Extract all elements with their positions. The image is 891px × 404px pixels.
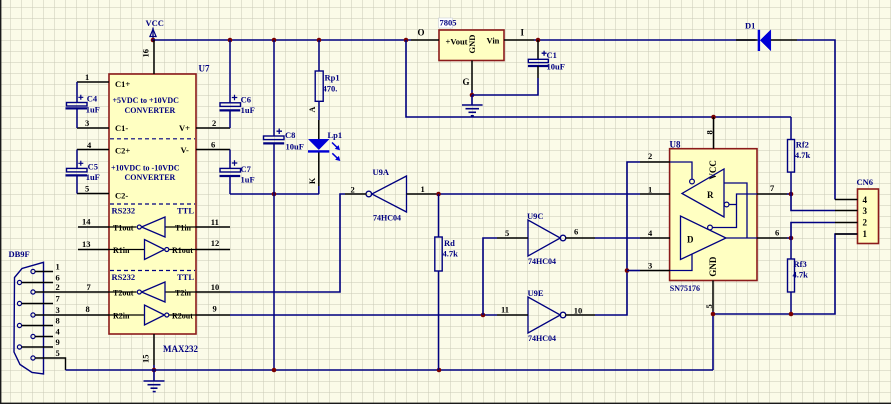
- pin 10 of U7: [196, 291, 230, 293]
- pin 8 of U7: [53, 314, 109, 316]
- svg-text:4.7k: 4.7k: [795, 150, 811, 160]
- wire VCC rail (U7 pin16 / C6 / C8 / Rp1 / 7805 Vout net): [152, 39, 411, 41]
- pin 4 of U8: [640, 237, 670, 239]
- junction on rail at C6: [228, 38, 233, 43]
- svg-text:GND: GND: [467, 35, 477, 54]
- capacitor C4 1uF: [66, 82, 100, 128]
- internal pin lines of U7 gates: [109, 227, 196, 315]
- svg-text:C1: C1: [547, 50, 557, 60]
- svg-text:6: 6: [775, 228, 779, 238]
- svg-text:MAX232: MAX232: [163, 344, 198, 354]
- connector CN6: [857, 177, 879, 244]
- svg-text:A: A: [308, 107, 317, 113]
- pin 7 of U8 (B): [757, 193, 787, 195]
- svg-text:C7: C7: [241, 164, 252, 174]
- pin 1 of CN6: [835, 233, 858, 235]
- svg-text:2: 2: [648, 151, 652, 161]
- svg-text:U9E: U9E: [528, 288, 544, 298]
- junction at U8 pin 3 branch: [625, 268, 630, 273]
- wire B net to CN6 pin 3: [791, 194, 835, 211]
- resistor Rf2 4.7k: [788, 117, 811, 194]
- RE bubble on R top edge: [690, 179, 695, 184]
- wire LED cathode down to C7 net: [318, 153, 320, 187]
- pin 3 of DB9F: [35, 314, 53, 316]
- IC U7 MAX232 body: [109, 64, 210, 355]
- screenshot left border: [0, 0, 1, 404]
- pin 5 of DB9F: [35, 358, 66, 370]
- svg-text:11: 11: [501, 304, 509, 314]
- svg-text:2: 2: [351, 185, 355, 195]
- svg-text:8: 8: [56, 316, 60, 326]
- resistor Rd 4.7k: [435, 194, 458, 370]
- pin 3 of CN6: [835, 210, 858, 212]
- svg-text:74HC04: 74HC04: [373, 214, 401, 223]
- junction A net at Rf3: [789, 236, 794, 241]
- svg-text:CN6: CN6: [857, 177, 874, 187]
- svg-text:+5VDC to +10VDC: +5VDC to +10VDC: [113, 96, 180, 105]
- junction ground rail at Rd line: [437, 368, 442, 373]
- pin 15 of U7: [153, 334, 155, 365]
- svg-text:K: K: [308, 177, 317, 184]
- svg-text:3: 3: [85, 118, 89, 128]
- pin 6 of U8 (A): [757, 237, 787, 239]
- svg-text:11: 11: [211, 217, 219, 227]
- svg-text:DB9F: DB9F: [9, 249, 30, 259]
- pin 1 of U8: [640, 193, 670, 195]
- pin 2 of U9A (output): [345, 193, 367, 195]
- svg-text:T2in: T2in: [175, 289, 192, 298]
- junction U9C branch: [481, 313, 486, 318]
- capacitor C5 1uF: [66, 150, 100, 194]
- ground symbol at U7 pin 15: [144, 370, 165, 392]
- junction ground rail at C8 line: [272, 368, 277, 373]
- pin 4 of CN6: [835, 199, 858, 201]
- svg-text:C6: C6: [241, 94, 251, 104]
- pin 11 of U9E (input): [497, 314, 528, 316]
- resistor Rp1 470: [315, 40, 339, 140]
- svg-text:9: 9: [213, 304, 217, 314]
- inverter U9C 74HC04: [527, 211, 566, 266]
- svg-text:VCC: VCC: [708, 160, 718, 180]
- svg-text:GND: GND: [708, 256, 718, 277]
- svg-text:3: 3: [648, 260, 652, 270]
- svg-text:T1out: T1out: [113, 224, 134, 233]
- junction on rail at +5V branch: [404, 38, 409, 43]
- junction right ground at Rf3 bottom: [789, 312, 794, 317]
- pin 8 of U8 (VCC): [713, 117, 715, 149]
- junction +5V line at U8 pin 8: [711, 115, 716, 120]
- junction at Rd top: [436, 192, 441, 197]
- svg-text:T2out: T2out: [113, 289, 134, 298]
- svg-text:1: 1: [863, 229, 868, 239]
- wire G pin to ground: [471, 90, 473, 95]
- pin 2 of DB9F: [35, 291, 53, 293]
- wire C1 bottom to G node: [472, 78, 538, 95]
- svg-text:10uF: 10uF: [286, 142, 304, 152]
- driver triangle D inside U8: [681, 216, 727, 260]
- svg-text:5: 5: [85, 184, 89, 194]
- inverter U9A 74HC04: [366, 167, 407, 223]
- wire +5V branch down from rail: [406, 40, 791, 117]
- pin 12 of U7: [196, 249, 230, 251]
- svg-text:6: 6: [56, 273, 60, 283]
- svg-text:5: 5: [704, 304, 714, 308]
- junction on rail at Rp1: [317, 38, 322, 43]
- svg-text:R2in: R2in: [113, 312, 130, 321]
- IC U8 SN75176 body: [670, 140, 758, 294]
- svg-text:14: 14: [82, 217, 91, 227]
- pin 3 of U8: [640, 270, 670, 272]
- svg-text:3: 3: [863, 206, 868, 216]
- pin O of 7805 (Vout): [411, 39, 439, 41]
- svg-text:15: 15: [141, 355, 151, 364]
- svg-text:10: 10: [574, 305, 583, 315]
- pin 1 of U7: [77, 81, 109, 83]
- power port VCC: [146, 18, 164, 42]
- svg-text:RS232: RS232: [112, 206, 136, 216]
- junction ground rail at U7 pin15: [152, 368, 157, 373]
- svg-text:C1-: C1-: [115, 123, 128, 133]
- gate R1 inside U7: [145, 240, 165, 260]
- svg-text:10: 10: [211, 282, 220, 292]
- svg-text:+10VDC to -10VDC: +10VDC to -10VDC: [111, 164, 180, 173]
- pin 1 of U9A (input): [407, 193, 437, 195]
- diode D1: [736, 21, 797, 52]
- svg-text:2: 2: [56, 282, 60, 292]
- svg-text:U7: U7: [199, 64, 210, 74]
- svg-text:2: 2: [212, 118, 216, 128]
- pin I of 7805 (Vin): [504, 39, 534, 41]
- svg-text:C5: C5: [88, 162, 98, 172]
- junction G node: [470, 93, 475, 98]
- svg-text:O: O: [418, 28, 425, 38]
- svg-text:C2+: C2+: [115, 146, 130, 156]
- svg-text:U9C: U9C: [527, 211, 544, 221]
- junction C8 line on that net: [272, 192, 277, 197]
- pin 1 of DB9F: [35, 271, 53, 273]
- internal wire R input to pin 6 line: [724, 183, 747, 238]
- svg-text:8: 8: [86, 304, 90, 314]
- wire C7 bottom / LED cathode net: [230, 193, 319, 195]
- svg-text:I: I: [521, 28, 525, 38]
- internal wire pin 6 to D tip: [726, 237, 757, 239]
- capacitor C8 10uF: [263, 40, 304, 370]
- svg-text:Lp1: Lp1: [328, 130, 343, 140]
- pin 4 of DB9F: [35, 336, 53, 338]
- svg-text:Vin: Vin: [487, 36, 500, 46]
- svg-text:D1: D1: [745, 21, 755, 31]
- pin 2 of U7: [196, 127, 230, 129]
- pin 6 of U7: [196, 149, 230, 151]
- svg-text:RS232: RS232: [112, 272, 136, 282]
- wire U9A out to U7 pin10 (T2in): [230, 194, 345, 292]
- svg-text:Rf3: Rf3: [794, 259, 807, 269]
- gate T2 inside U7: [142, 282, 166, 302]
- pin 16 of U7: [153, 40, 155, 74]
- wire pin6/A net: [787, 237, 791, 239]
- svg-text:74HC04: 74HC04: [528, 334, 556, 343]
- pin 4 of U7: [77, 149, 109, 151]
- svg-text:13: 13: [82, 239, 91, 249]
- pin 10 of U9E (output): [565, 314, 595, 316]
- svg-text:V+: V+: [179, 123, 190, 133]
- wire A net to CN6 pin 2: [791, 223, 835, 239]
- capacitor C6 1uF: [220, 40, 255, 128]
- svg-text:TTL: TTL: [177, 272, 194, 282]
- gate T1 inside U7: [142, 217, 166, 237]
- svg-text:CONVERTER: CONVERTER: [125, 106, 176, 115]
- wire U9C output to U8 pin 4 (D): [595, 237, 640, 239]
- wire junction to U8 pin 3: [627, 270, 640, 272]
- svg-text:1: 1: [648, 184, 652, 194]
- svg-text:9: 9: [56, 337, 60, 347]
- pin 2 of U8: [640, 161, 670, 163]
- wire branch up to U9C input: [483, 238, 497, 315]
- pin 7 of DB9F: [22, 303, 54, 305]
- svg-text:74HC04: 74HC04: [528, 257, 556, 266]
- internal wire pin 7 to D bubble: [712, 194, 757, 228]
- connector DB9F: [9, 249, 44, 374]
- pin 9 of U7: [196, 314, 230, 316]
- pin 7 of U7: [53, 291, 109, 293]
- svg-text:4.7k: 4.7k: [793, 269, 809, 279]
- svg-text:R: R: [707, 190, 714, 200]
- svg-text:V-: V-: [181, 145, 190, 155]
- svg-text:C8: C8: [285, 130, 295, 140]
- svg-text:4: 4: [863, 195, 868, 205]
- svg-text:1uF: 1uF: [241, 175, 255, 185]
- wire D1 anode to CN6 pin 4: [797, 40, 835, 200]
- junction right ground at U8 pin5 line: [711, 312, 716, 317]
- inverter U9E 74HC04: [528, 288, 566, 343]
- svg-text:1uF: 1uF: [241, 105, 255, 115]
- svg-text:3: 3: [56, 305, 60, 315]
- pin 5 of U8 (GND): [712, 281, 714, 312]
- wire right ground net (U8 pin5 / Rf3 / CN6 pin1): [713, 234, 858, 314]
- svg-text:D: D: [687, 235, 694, 245]
- svg-text:+Vout: +Vout: [446, 37, 468, 47]
- svg-text:R1out: R1out: [172, 246, 193, 255]
- svg-text:10uF: 10uF: [547, 61, 565, 71]
- pin 11 of U7: [196, 226, 230, 228]
- svg-text:VCC: VCC: [146, 18, 164, 28]
- junction on rail at C8: [272, 38, 277, 43]
- pin 8 of DB9F: [22, 325, 54, 327]
- svg-text:1uF: 1uF: [86, 172, 100, 182]
- svg-text:SN75176: SN75176: [670, 284, 700, 293]
- svg-text:8: 8: [704, 130, 714, 134]
- wire ground rail bottom: [66, 369, 714, 371]
- svg-text:16: 16: [141, 49, 151, 58]
- bubble on D top edge (B output): [708, 225, 713, 230]
- resistor Rf3 4.7k: [788, 238, 809, 314]
- svg-text:2: 2: [863, 217, 868, 227]
- svg-text:C2-: C2-: [115, 191, 128, 201]
- svg-text:CONVERTER: CONVERTER: [125, 173, 176, 182]
- internal bubble line R to pin 7 line: [724, 202, 729, 207]
- internal wire pin 3 to D bottom edge: [670, 254, 692, 271]
- svg-text:R2out: R2out: [172, 312, 193, 321]
- wire pin15 to ground rail: [153, 365, 155, 370]
- pin 9 of DB9F: [22, 346, 54, 348]
- capacitor C7 1uF: [220, 150, 255, 195]
- svg-text:6: 6: [211, 139, 215, 149]
- wire U8 pin5 to ground rail: [712, 311, 714, 370]
- pin 3 of U7: [77, 127, 109, 129]
- svg-text:C1+: C1+: [115, 79, 130, 89]
- svg-text:Rd: Rd: [444, 238, 455, 248]
- svg-text:1uF: 1uF: [86, 105, 100, 115]
- svg-text:R1in: R1in: [113, 246, 130, 255]
- svg-text:G: G: [463, 77, 470, 87]
- gate R2 inside U7: [145, 305, 165, 325]
- capacitor C1 10uF: [528, 40, 565, 78]
- svg-text:5: 5: [505, 228, 509, 238]
- wire Vin net to C1 and D1: [534, 39, 756, 41]
- pin 14 of U7: [78, 226, 109, 228]
- svg-text:1: 1: [421, 184, 425, 194]
- svg-text:12: 12: [211, 238, 220, 248]
- wire U7 pin9 (R2out) to U9E input: [230, 314, 497, 316]
- LED Lp1: [308, 130, 342, 161]
- svg-text:U9A: U9A: [373, 167, 390, 177]
- pin 2 of CN6: [835, 222, 858, 224]
- receiver triangle R inside U8: [682, 169, 724, 217]
- svg-text:7805: 7805: [440, 18, 457, 28]
- svg-text:Rp1: Rp1: [325, 73, 340, 83]
- svg-text:Rf2: Rf2: [796, 139, 809, 149]
- svg-text:470.: 470.: [323, 83, 338, 93]
- pin 6 of DB9F: [22, 282, 54, 284]
- svg-text:1: 1: [85, 72, 89, 82]
- svg-text:TTL: TTL: [177, 206, 194, 216]
- pin 13 of U7: [78, 249, 109, 251]
- svg-text:5: 5: [56, 348, 60, 358]
- junction B net at Rf2: [789, 192, 794, 197]
- regulator U? 7805: [439, 18, 504, 61]
- pin 5 of U9C (input): [497, 237, 528, 239]
- svg-text:4.7k: 4.7k: [443, 248, 459, 258]
- pin 5 of U7: [77, 193, 109, 195]
- wire U9A input to U8 pin 1 (R): [436, 193, 640, 195]
- ground symbol at 7805: [462, 95, 483, 116]
- svg-text:C4: C4: [87, 93, 98, 103]
- svg-text:6: 6: [574, 226, 578, 236]
- screenshot bottom border: [0, 403, 891, 404]
- junction Vin at C1: [536, 38, 541, 43]
- wire pin7/B net: [787, 193, 791, 195]
- svg-text:T1in: T1in: [175, 224, 192, 233]
- internal wire pin2 to RE bubble: [670, 162, 692, 179]
- wire U9E output to U8 pins 2,3: [595, 162, 640, 315]
- svg-text:1: 1: [56, 262, 60, 272]
- pin 6 of U9C (output): [565, 237, 595, 239]
- pin G of 7805 (GND): [471, 61, 473, 91]
